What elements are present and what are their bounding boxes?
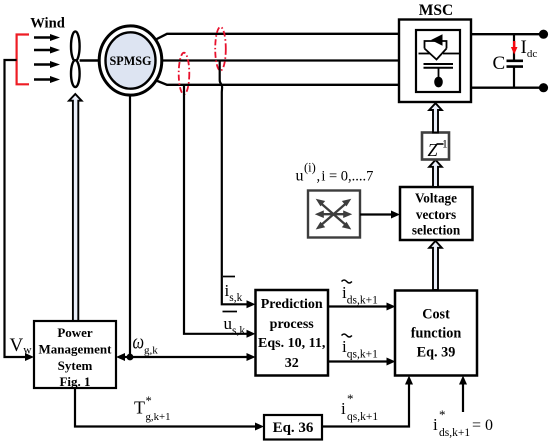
svg-text:MSC: MSC [419,2,453,19]
svg-text:*: * [347,391,354,406]
svg-text:Wind: Wind [30,16,65,32]
svg-text:ds,k+1: ds,k+1 [439,427,470,439]
delay block Z-1 [422,133,449,160]
svg-text:Z: Z [428,140,439,160]
phase line b [155,59,399,61]
svg-text:Eq. 39: Eq. 39 [417,345,456,361]
svg-text:T: T [134,398,145,418]
label iqs,k+1 [342,334,352,337]
wire blade to generator [80,59,100,62]
svg-text:= 0: = 0 [472,417,493,434]
node DC+ terminal [539,30,548,39]
svg-text:i: i [341,399,346,418]
node DC- terminal [539,83,548,92]
wire DC negative rail [471,87,544,89]
current sensor ellipse [215,27,226,71]
svg-text:function: function [411,326,462,342]
svg-text:Cost: Cost [422,307,450,323]
svg-text:u: u [296,168,304,185]
Idc red arrow [513,41,515,48]
svg-text:Eq. 36: Eq. 36 [273,420,314,436]
IGBT inner box [416,30,460,92]
wire DC positive rail [471,33,544,35]
svg-text:g,k: g,k [144,345,158,357]
Eq. 36 box [264,415,322,440]
svg-text:Prediction: Prediction [261,297,323,312]
wire iqs*,k+1 [322,382,409,427]
svg-text:1: 1 [442,139,448,151]
svg-text:Power: Power [57,325,93,340]
svg-text:(i): (i) [304,161,316,175]
svg-text:SPMSG: SPMSG [110,54,153,68]
label is,k [223,276,235,278]
svg-text:vectors: vectors [416,207,456,222]
generator SPMSG [99,26,162,95]
prediction process box [256,290,329,376]
red bracket [17,35,29,85]
cost function box [395,291,477,376]
wire us measurement [184,85,248,334]
svg-text:*: * [146,394,152,408]
turbine blades [71,31,80,61]
power management system box [34,321,116,388]
phase line a [145,34,399,45]
svg-text:i: i [433,415,438,434]
capacitor C [513,34,515,60]
svg-text:32: 32 [285,356,299,371]
svg-text:, i = 0,....7: , i = 0,....7 [317,169,374,185]
open arrow PM system to turbine [69,94,82,321]
vector diagram box [308,191,360,238]
phase line c [145,76,399,85]
svg-text:Management: Management [39,342,113,357]
svg-text:Voltage: Voltage [415,191,457,206]
wire omega g,k from generator [129,95,131,357]
wire is measurement with hop [220,61,248,305]
svg-text:*: * [439,407,446,422]
svg-text:process: process [270,317,315,332]
svg-text:C: C [493,53,506,74]
wire ids*=0 [462,382,464,412]
voltage sensor ellipse [179,53,190,95]
node omega junction [127,354,134,361]
svg-text:qs,k+1: qs,k+1 [347,411,378,423]
wire omega to power management [124,356,130,358]
label ids,k+1 [342,280,352,283]
open arrow cost to voltage selection [429,241,442,290]
wire iqs,k+1 prediction to cost [328,360,388,362]
open arrow Z to MSC [429,103,442,132]
svg-text:g,k+1: g,k+1 [146,411,171,423]
svg-text:selection: selection [412,223,461,238]
svg-text:Sytem: Sytem [58,358,93,373]
IGBT symbol [419,41,460,78]
voltage vectors selection box [400,187,473,240]
open arrow voltage selection to Z [429,160,442,187]
wire vector box to voltage selection [360,213,392,215]
wind arrows [34,34,60,83]
wire omega to prediction process [130,356,248,358]
svg-text:Fig. 1: Fig. 1 [59,374,90,389]
label us,k [223,311,238,313]
wire Vw [5,60,27,357]
wire T*g,k+1 [75,388,256,427]
MSC converter box [399,20,471,103]
svg-text:Eqs. 10, 11,: Eqs. 10, 11, [258,336,325,351]
wire ids,k+1 prediction to cost [328,305,388,307]
svg-text:ω: ω [133,331,145,354]
